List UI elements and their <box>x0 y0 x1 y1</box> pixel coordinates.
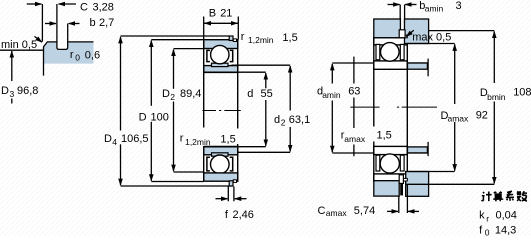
svg-text:2: 2 <box>170 92 175 102</box>
outer ring upper <box>204 40 238 49</box>
ball upper <box>211 45 229 63</box>
svg-text:min 0,5: min 0,5 <box>1 39 37 51</box>
shield lower left <box>207 157 210 171</box>
dimension d2 bottom line <box>233 151 290 153</box>
dimension f extension lines <box>228 187 234 202</box>
b_a slot walls <box>400 5 404 31</box>
housing block upper left <box>374 19 401 38</box>
shield upper left <box>207 50 210 61</box>
housing block upper right <box>405 19 429 44</box>
svg-text:amin: amin <box>425 4 444 14</box>
svg-text:21: 21 <box>220 7 232 19</box>
housing block lower right <box>406 172 429 197</box>
dimension d_a top line <box>332 62 427 64</box>
right bearing body (white) <box>374 38 408 181</box>
groove cross-section body <box>44 42 94 64</box>
svg-text:D: D <box>162 88 170 100</box>
snap ring groove notch lower right-drawing <box>404 178 408 181</box>
dimension d bottom line <box>238 146 266 148</box>
dimension D_a vertical <box>454 44 456 104</box>
shaft shoulder face line upper <box>427 59 429 77</box>
shaft abutment strip lower <box>408 147 428 153</box>
svg-text:63,1: 63,1 <box>289 114 310 126</box>
svg-text:1,2min: 1,2min <box>185 137 211 147</box>
svg-text:106,5: 106,5 <box>121 133 149 145</box>
svg-text:amin: amin <box>322 90 341 100</box>
svg-text:max 0,5: max 0,5 <box>412 32 451 44</box>
svg-text:63: 63 <box>348 86 360 98</box>
shield upper right-drawing left <box>376 44 380 59</box>
ball lower <box>211 155 230 174</box>
r_a reference line <box>353 57 355 157</box>
groove bottom reference line (min 0,5) <box>0 49 43 51</box>
snap ring groove notch lower <box>233 180 236 183</box>
inner ring lower <box>204 147 238 155</box>
leader max 0,5 <box>406 30 414 36</box>
dimension B line with arrows <box>204 22 239 24</box>
svg-text:r: r <box>241 31 245 43</box>
dimension d top line <box>238 71 266 73</box>
inner ring upper right <box>374 61 408 69</box>
svg-text:1,2min: 1,2min <box>248 35 274 45</box>
inner ring upper <box>204 66 238 73</box>
svg-text:B: B <box>209 7 216 19</box>
dimension D_a top line <box>407 43 454 45</box>
svg-text:r: r <box>70 49 74 61</box>
snap ring tab lower <box>229 181 233 186</box>
svg-text:k: k <box>479 210 485 222</box>
svg-text:3: 3 <box>456 0 462 12</box>
svg-text:1,5: 1,5 <box>377 129 392 141</box>
svg-text:4: 4 <box>112 137 117 147</box>
svg-text:d: d <box>274 114 280 126</box>
svg-text:0,04: 0,04 <box>496 210 517 222</box>
dimension C extension lines <box>42 4 57 42</box>
ball upper right <box>381 43 400 62</box>
svg-text:C: C <box>318 205 326 217</box>
svg-text:89,4: 89,4 <box>180 88 201 100</box>
svg-text:2: 2 <box>281 118 286 128</box>
dimension D4 bottom line <box>121 185 234 187</box>
outer ring lower <box>204 173 238 181</box>
middle bearing body <box>204 36 238 186</box>
svg-text:0: 0 <box>75 53 80 63</box>
shield upper right-drawing right <box>400 44 404 59</box>
dimension D2 vertical <box>173 49 175 88</box>
ball lower right <box>380 154 399 173</box>
dimension D2 top line <box>174 48 204 50</box>
centerline middle <box>203 110 241 112</box>
dimension D_a bottom line <box>407 171 454 173</box>
svg-text:108: 108 <box>513 86 531 98</box>
dimension B extension lines <box>204 17 239 40</box>
right bearing side faces <box>374 38 408 181</box>
dimension b_a arrows <box>388 4 400 6</box>
snap ring tab lower right-drawing <box>399 175 403 184</box>
shaft abutment strip upper <box>408 63 428 69</box>
centerline right <box>350 106 437 108</box>
svg-text:D: D <box>104 133 112 145</box>
svg-text:0,6: 0,6 <box>85 50 100 62</box>
snap ring tab upper right-drawing <box>399 30 405 38</box>
svg-text:amax: amax <box>326 208 348 218</box>
svg-text:bmin: bmin <box>487 92 506 102</box>
outer ring upper right <box>374 38 408 45</box>
svg-text:14,3: 14,3 <box>495 225 516 236</box>
svg-text:92: 92 <box>476 109 488 121</box>
housing block lower left <box>374 181 399 196</box>
dimension d2 vertical <box>289 66 291 111</box>
dimension b arrows <box>45 23 56 25</box>
shield lower right <box>230 157 233 171</box>
dimension D_b vertical <box>493 31 495 83</box>
shield upper right <box>230 50 233 61</box>
chinese heading (calculation factors) drawn as strokes <box>482 191 527 201</box>
bore lines <box>204 72 238 146</box>
snap ring tab lower dark bar <box>400 183 403 195</box>
dimension D top line <box>151 39 203 41</box>
dimension D2 bottom line <box>174 171 204 173</box>
snap ring tab upper <box>229 36 233 41</box>
dimension D bottom line <box>151 181 203 183</box>
svg-text:r: r <box>486 213 489 223</box>
dimension D4 top line <box>121 35 230 37</box>
shield lower right-drawing right <box>400 155 404 171</box>
dimension D_b top line <box>429 30 495 32</box>
dimension d vertical <box>265 73 267 88</box>
snap ring groove notch upper right-drawing <box>404 35 407 38</box>
shield lower right-drawing left <box>376 155 380 171</box>
dimension D4 vertical <box>120 37 122 131</box>
svg-text:amax: amax <box>448 114 470 124</box>
svg-text:55: 55 <box>261 88 273 100</box>
char shu <box>517 191 527 201</box>
dimension f arrows <box>216 198 228 200</box>
shaft shoulder face line lower <box>427 142 429 156</box>
svg-text:3,28: 3,28 <box>93 1 114 13</box>
dimension D vertical <box>150 40 152 105</box>
svg-text:0: 0 <box>485 228 490 236</box>
inner ring raceway hump upper <box>212 63 229 66</box>
dimension D_b bottom line <box>406 183 495 185</box>
svg-text:b: b <box>90 17 96 29</box>
svg-text:amax: amax <box>344 134 366 144</box>
svg-text:100: 100 <box>151 111 169 123</box>
svg-text:d: d <box>247 88 253 100</box>
dimension C arrows <box>27 3 42 5</box>
char xi <box>506 191 514 201</box>
inner ring raceway hump lower <box>212 153 229 156</box>
dimension d_a vertical <box>331 64 333 84</box>
svg-text:D: D <box>1 85 9 97</box>
bearing side faces <box>204 40 238 182</box>
svg-text:3: 3 <box>10 89 15 99</box>
svg-text:r: r <box>180 132 184 144</box>
svg-text:2,7: 2,7 <box>99 17 114 29</box>
dimension d_a bottom line <box>332 152 427 154</box>
svg-text:2,46: 2,46 <box>233 209 254 221</box>
svg-text:D: D <box>139 111 147 123</box>
dimension C_a extension lines <box>399 185 408 214</box>
outer ring lower right <box>374 174 408 181</box>
dimension b extension line <box>67 24 69 42</box>
svg-text:96,8: 96,8 <box>17 85 38 97</box>
dimension C_a arrows <box>387 210 398 212</box>
svg-text:1,5: 1,5 <box>282 32 297 44</box>
snap ring groove notch upper <box>233 39 236 42</box>
dimension D3 arrow line <box>11 51 13 81</box>
svg-text:5,74: 5,74 <box>354 205 375 217</box>
svg-text:C: C <box>80 1 88 13</box>
char ji <box>482 192 492 202</box>
leader arrow min 0,5 <box>35 36 43 42</box>
svg-text:1,5: 1,5 <box>220 133 235 145</box>
char suan <box>493 192 503 202</box>
dimension d2 top line <box>232 64 291 66</box>
inner ring lower right <box>374 146 408 154</box>
